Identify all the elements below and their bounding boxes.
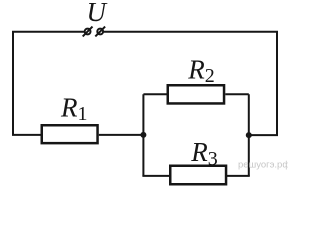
resistor R3 <box>170 166 226 185</box>
svg-text:U: U <box>87 0 108 27</box>
resistor R2 <box>168 85 224 103</box>
wire R2 to right branch <box>225 93 249 95</box>
wire left to R1 <box>12 134 41 136</box>
resistor R1 <box>42 125 98 143</box>
wire node A to R2 <box>143 93 167 95</box>
wire top-right segment <box>103 32 277 135</box>
wire R1 to node A <box>99 134 144 136</box>
node A junction dot <box>140 132 146 138</box>
terminal left clamp <box>83 27 93 37</box>
wire right branch vertical <box>248 94 250 176</box>
terminal right clamp <box>95 27 105 37</box>
wire R3 to node B <box>227 175 250 177</box>
wire node A to R3 <box>142 175 169 177</box>
wire top-left segment <box>13 32 85 135</box>
node B junction dot <box>246 132 252 138</box>
svg-text:решуогэ.рф: решуогэ.рф <box>238 160 288 171</box>
wire left branch vertical <box>142 94 144 176</box>
